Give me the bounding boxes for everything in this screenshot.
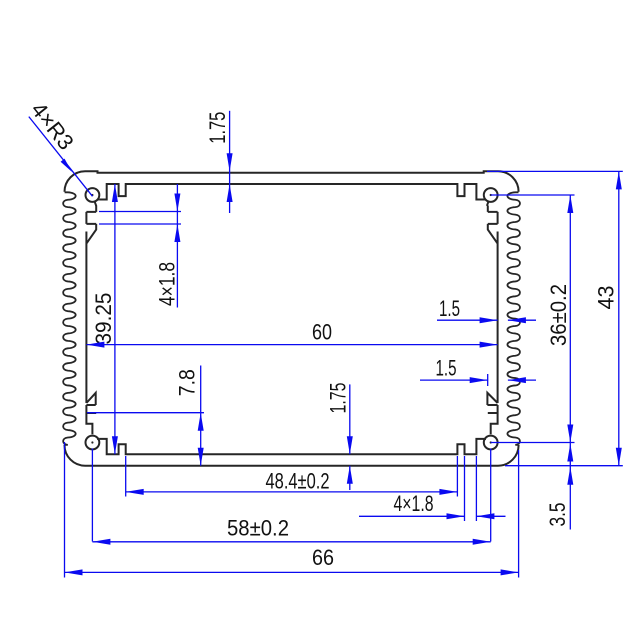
svg-text:1.75: 1.75 [326,383,351,414]
svg-text:7.8: 7.8 [175,369,200,396]
svg-text:4×1.8: 4×1.8 [155,262,180,306]
svg-text:3.5: 3.5 [545,503,570,527]
svg-text:66: 66 [312,545,334,570]
svg-text:1.5: 1.5 [436,356,457,381]
svg-text:58±0.2: 58±0.2 [227,516,289,541]
svg-text:43: 43 [594,286,619,310]
svg-text:4×1.8: 4×1.8 [394,491,434,516]
svg-text:39.25: 39.25 [91,293,116,345]
svg-text:48.4±0.2: 48.4±0.2 [266,469,330,494]
svg-text:36±0.2: 36±0.2 [546,284,571,346]
svg-text:60: 60 [312,320,332,345]
svg-text:1.5: 1.5 [439,296,460,321]
svg-text:1.75: 1.75 [205,112,230,144]
